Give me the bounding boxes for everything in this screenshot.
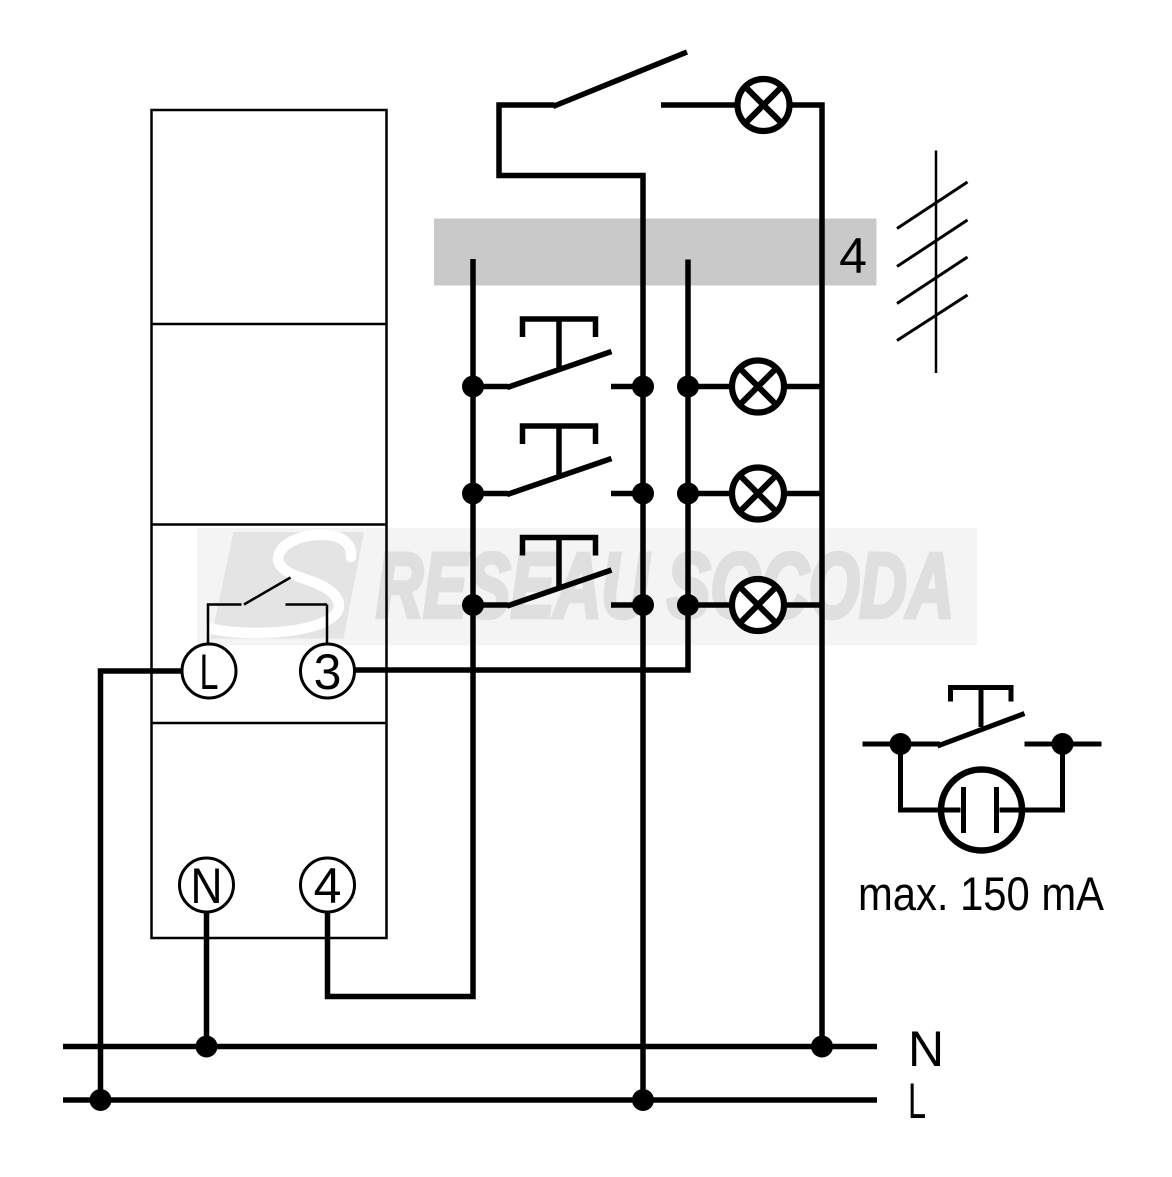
svg-text:N: N <box>191 858 223 914</box>
svg-text:N: N <box>908 1021 944 1077</box>
svg-text:L: L <box>908 1073 926 1129</box>
svg-text:max. 150 mA: max. 150 mA <box>858 867 1105 920</box>
svg-text:4: 4 <box>314 858 342 914</box>
svg-text:4: 4 <box>839 228 867 284</box>
svg-text:L: L <box>200 644 219 700</box>
svg-text:RESEAU SOCODA: RESEAU SOCODA <box>376 535 954 637</box>
svg-text:3: 3 <box>314 644 342 700</box>
